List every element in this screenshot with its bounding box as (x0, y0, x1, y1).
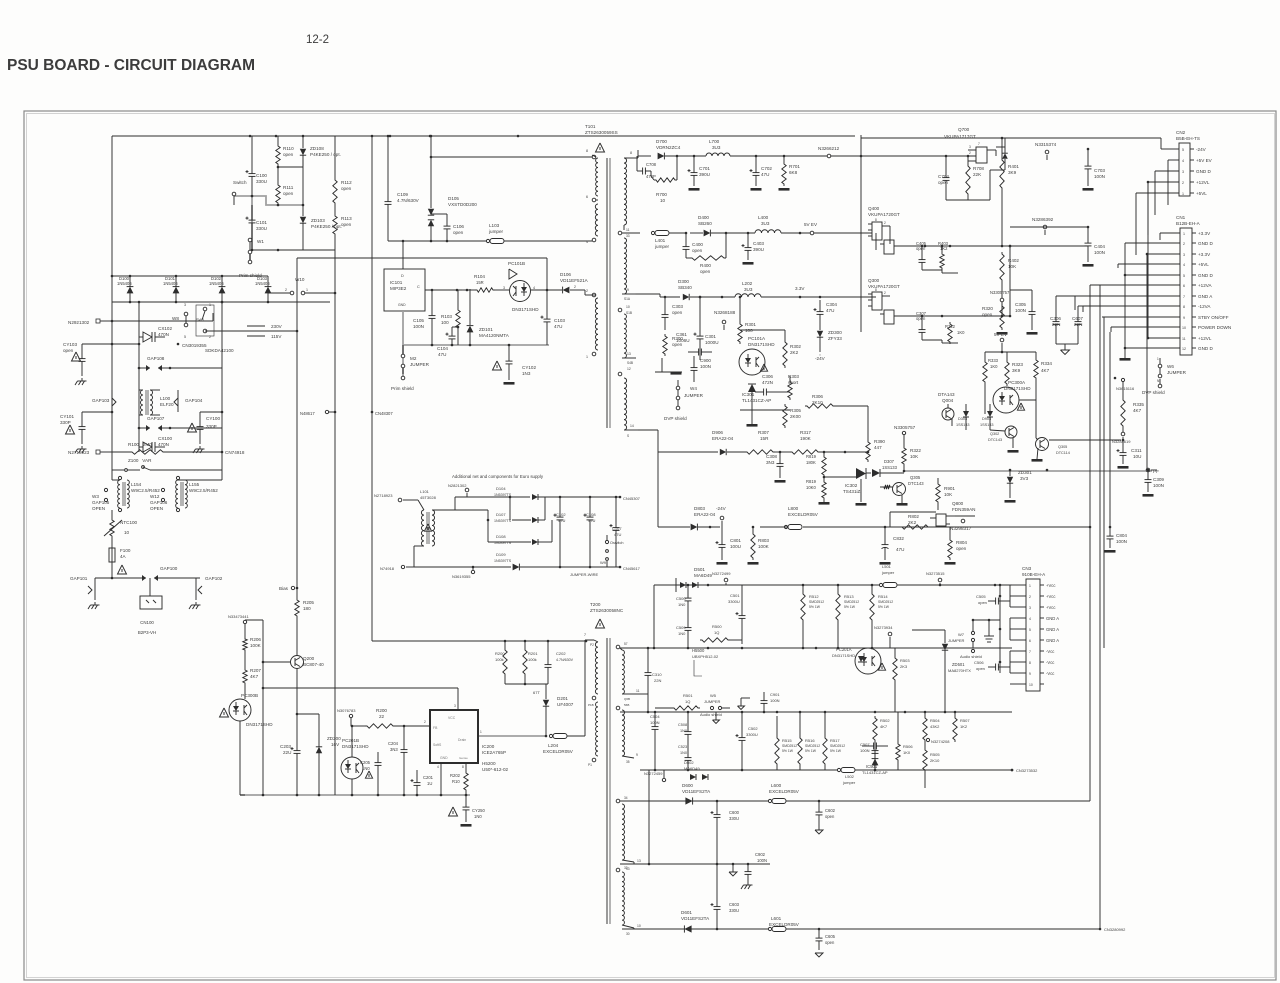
diode D803 ERA22-04 (691, 506, 720, 530)
svg-text:ICE2A765P: ICE2A765P (482, 750, 506, 755)
svg-text:P4KE250 / opt.: P4KE250 / opt. (310, 152, 341, 157)
svg-text:4K7: 4K7 (880, 724, 888, 729)
diode Q700 body (996, 147, 1008, 166)
svg-text:100U: 100U (730, 544, 741, 549)
jumper W4 (676, 380, 703, 400)
svg-text:4K7: 4K7 (1133, 408, 1142, 413)
diode D104 1N5397TS (494, 486, 620, 500)
svg-text:D106: D106 (560, 272, 571, 277)
svg-text:4: 4 (1183, 263, 1185, 267)
svg-text:3N3: 3N3 (766, 460, 775, 465)
svg-text:W8: W8 (172, 316, 179, 321)
shield tri PC201B (365, 771, 372, 778)
svg-text:2: 2 (1029, 595, 1031, 599)
svg-text:C101: C101 (256, 220, 267, 225)
svg-text:910B-EH-A: 910B-EH-A (1022, 572, 1046, 577)
svg-text:1: 1 (1157, 357, 1159, 361)
svg-text:22K: 22K (973, 172, 982, 177)
gap GAP102 (196, 576, 223, 600)
resistor R301 100 (738, 296, 757, 344)
svg-text:+12VA: +12VA (1198, 283, 1213, 288)
svg-text:R708: R708 (973, 166, 984, 171)
resistor R400 open (686, 232, 727, 274)
resistor R700 10 (654, 156, 677, 203)
audio shield 2 (700, 712, 722, 724)
svg-text:47U: 47U (558, 518, 565, 523)
connector CN100 (138, 578, 162, 635)
resistor R303 short (788, 374, 800, 400)
svg-text:CN100: CN100 (140, 620, 154, 625)
svg-text:FDN359AN: FDN359AN (952, 507, 976, 512)
svg-text:R517: R517 (830, 738, 840, 743)
svg-text:N3284619: N3284619 (1112, 439, 1131, 444)
earth ground (75, 378, 87, 385)
svg-text:C361: C361 (676, 332, 687, 337)
svg-text:R504: R504 (930, 718, 940, 723)
terminal N3305757 (894, 425, 916, 435)
resistor R320 open (982, 304, 1008, 335)
svg-text:GND D: GND D (1198, 241, 1213, 246)
terminal N2821302 (448, 483, 469, 497)
capacitor C102 47U (554, 497, 567, 567)
svg-text:7: 7 (978, 142, 980, 146)
svg-text:Z100 VAR: Z100 VAR (128, 458, 152, 463)
capacitor C311 10U (1117, 439, 1143, 469)
svg-text:C605: C605 (825, 934, 836, 939)
svg-text:VKUPA1720GT: VKUPA1720GT (868, 212, 900, 217)
svg-text:C600: C600 (729, 810, 740, 815)
svg-text:3V3: 3V3 (1020, 476, 1029, 481)
diode D108 1N5397TS (455, 510, 552, 545)
transformer T200 sec tap 11 (622, 689, 648, 701)
svg-text:2: 2 (884, 221, 886, 225)
svg-text:open: open (283, 152, 294, 157)
capacitor C501 3300U (728, 585, 746, 644)
transformer T101 secondary tap 12 (618, 372, 622, 376)
svg-text:open: open (700, 269, 711, 274)
svg-text:C506: C506 (974, 660, 984, 665)
svg-text:1000U: 1000U (705, 340, 719, 345)
svg-text:R307: R307 (758, 430, 769, 435)
wire rail 770 (640, 769, 1013, 772)
svg-text:Q305: Q305 (1058, 445, 1067, 449)
resistor R901 10K (936, 478, 956, 510)
svg-text:1Q: 1Q (714, 630, 719, 635)
resistor R701 6K8 (779, 156, 801, 191)
svg-text:ZD501: ZD501 (952, 662, 965, 667)
resistor R803 100K (748, 526, 770, 565)
svg-text:1K2: 1K2 (960, 724, 968, 729)
svg-text:N3274208: N3274208 (931, 739, 950, 744)
wire 5VEV right (1010, 226, 1089, 246)
wire euro top (432, 496, 530, 510)
svg-text:SMD2512: SMD2512 (809, 600, 824, 604)
svg-text:5% 1W: 5% 1W (782, 749, 794, 753)
wire CN2 feeds (1136, 160, 1168, 255)
svg-text:R111: R111 (283, 185, 294, 190)
svg-text:R113: R113 (341, 216, 352, 221)
svg-text:R819: R819 (806, 479, 817, 484)
svg-text:EXCELDR05V: EXCELDR05V (788, 512, 819, 517)
svg-text:MIP3E2: MIP3E2 (390, 286, 407, 291)
resistor R507 1K2 (953, 711, 971, 742)
svg-text:R516: R516 (805, 738, 815, 743)
gap GAP104 (174, 390, 203, 412)
svg-text:4: 4 (1182, 159, 1184, 163)
svg-text:C311: C311 (1131, 448, 1142, 453)
bridge diode D101 1N5406 (163, 276, 179, 302)
svg-text:5: 5 (1182, 148, 1184, 152)
svg-text:4: 4 (437, 765, 439, 769)
svg-text:5% 1W: 5% 1W (878, 605, 890, 609)
svg-text:OPEN: OPEN (150, 506, 163, 511)
svg-text:DTC114: DTC114 (1056, 451, 1070, 455)
svg-text:jumper: jumper (842, 780, 856, 785)
svg-text:R512: R512 (809, 594, 819, 599)
wire left rail (111, 136, 113, 452)
svg-text:Q302: Q302 (990, 432, 999, 436)
wire rail 932 (622, 928, 860, 931)
svg-text:47U: 47U (896, 547, 904, 552)
svg-text:open: open (341, 222, 352, 227)
CN1 pin 1 (1160, 231, 1211, 236)
svg-text:open: open (956, 546, 967, 551)
wire bus bottom right (860, 770, 1126, 932)
svg-text:-12VA: -12VA (1198, 304, 1211, 309)
resistor R333 1K0 (983, 352, 1002, 414)
capacitor C307 open (916, 311, 927, 340)
svg-text:R103: R103 (441, 314, 452, 319)
capacitor C508 open (976, 594, 1010, 607)
svg-text:P1B: P1B (588, 703, 594, 707)
svg-text:C204: C204 (388, 741, 399, 746)
svg-text:R701: R701 (789, 164, 800, 169)
earth ground (88, 602, 100, 609)
terminal N2921302 (68, 319, 112, 325)
svg-text:1: 1 (209, 303, 211, 307)
resistor R201 100k (523, 640, 539, 686)
gnd squiggle (738, 698, 751, 710)
svg-text:N2718923: N2718923 (68, 450, 90, 455)
svg-text:C702: C702 (761, 166, 772, 171)
svg-text:67T: 67T (533, 690, 540, 695)
svg-text:T101: T101 (585, 124, 596, 129)
svg-text:SMD2512: SMD2512 (782, 744, 797, 748)
svg-text:W7: W7 (958, 632, 965, 637)
svg-text:R400: R400 (700, 263, 711, 268)
capacitor C301 1000U (694, 296, 719, 360)
capacitor C105 100N (413, 289, 436, 345)
resistor R515 SMD2512 (775, 716, 797, 770)
wire bus x1100 (1099, 285, 1101, 770)
svg-text:3K9: 3K9 (1008, 170, 1017, 175)
bridge diode D102 1N5406 (209, 276, 225, 302)
transformer T101 primary winding upper (586, 149, 598, 244)
svg-text:7: 7 (584, 633, 586, 637)
svg-text:L154: L154 (131, 482, 142, 487)
resistor R708 22K (946, 156, 984, 200)
svg-text:N2718923: N2718923 (374, 493, 393, 498)
svg-text:10K: 10K (910, 454, 919, 459)
svg-text:10: 10 (1029, 683, 1033, 687)
svg-text:1N5397TS: 1N5397TS (494, 559, 512, 563)
capacitor C104 47U (437, 326, 459, 357)
capacitor C361 1006U (676, 332, 712, 356)
transformer T101 secondary tap 10 (618, 305, 632, 315)
capacitor C101 (246, 205, 268, 250)
svg-text:W10: W10 (295, 277, 305, 282)
svg-text:C308: C308 (766, 454, 777, 459)
resistor R502 4K7 (873, 716, 891, 742)
svg-text:3U3: 3U3 (761, 221, 770, 226)
ic IC302 TS431iZ (824, 468, 867, 506)
svg-text:D307: D307 (884, 459, 895, 464)
label H5200 (482, 761, 508, 772)
svg-text:open: open (976, 666, 985, 671)
CN2 pin 1 +5VL (1136, 191, 1207, 196)
svg-text:L601: L601 (771, 916, 782, 921)
svg-text:472N: 472N (762, 380, 773, 385)
resistor R516 SMD2512 (798, 711, 820, 770)
svg-text:1: 1 (306, 288, 308, 292)
page number 12-2 (306, 34, 329, 46)
transformer T200 sec tap 13 (622, 859, 641, 871)
svg-text:R901: R901 (944, 486, 955, 491)
optocoupler PC300B (229, 685, 273, 795)
svg-text:L155: L155 (189, 482, 200, 487)
svg-text:5% 1W: 5% 1W (830, 749, 842, 753)
gap W12 GAP106 (150, 488, 168, 511)
terminal prim shield (239, 254, 262, 278)
svg-text:R514: R514 (878, 594, 888, 599)
svg-text:N2821302: N2821302 (448, 483, 467, 488)
CN1 pin 11 (1147, 336, 1212, 341)
resistor R506 1K0 (896, 712, 914, 770)
CN1 pin 10 (1111, 325, 1231, 330)
capacitor CY100 330P (188, 411, 224, 444)
capacitor C108 47U (584, 497, 597, 567)
svg-text:L101: L101 (420, 489, 430, 494)
transformer T200 sec pin bottom (622, 924, 641, 936)
svg-text:330U: 330U (256, 179, 267, 184)
label 3.3V (795, 286, 805, 297)
labels 230V 115V (247, 324, 283, 339)
svg-text:R112: R112 (341, 180, 352, 185)
capacitor C504 100N (650, 712, 660, 770)
svg-text:N3305757: N3305757 (894, 425, 916, 430)
svg-text:N48617: N48617 (300, 411, 315, 416)
svg-text:DVP shield: DVP shield (1142, 390, 1165, 395)
svg-text:10: 10 (124, 530, 130, 535)
svg-text:R402: R402 (1008, 258, 1019, 263)
svg-text:F100: F100 (120, 548, 131, 553)
svg-text:open: open (978, 600, 987, 605)
CN1 pin 9 (1102, 315, 1229, 320)
svg-text:CN48307: CN48307 (375, 411, 393, 416)
svg-text:+Vcc: +Vcc (1046, 583, 1055, 588)
mosfet Q700 VKUPA1717GT (944, 127, 996, 163)
CN2 pin 4 +5V EV (1168, 158, 1213, 163)
svg-text:Isense: Isense (459, 756, 468, 760)
svg-text:L502: L502 (845, 774, 855, 779)
wire Q700 node (945, 155, 970, 158)
svg-text:R513: R513 (844, 594, 854, 599)
capacitor C801 100U (716, 527, 742, 565)
svg-text:22N: 22N (654, 678, 661, 683)
svg-text:3: 3 (503, 286, 505, 290)
svg-text:VXSTD0D200: VXSTD0D200 (448, 202, 477, 207)
svg-text:470N: 470N (158, 442, 169, 447)
svg-text:C106: C106 (453, 224, 464, 229)
CN1 pin 6 (1090, 283, 1213, 288)
svg-text:9: 9 (1183, 316, 1185, 320)
transistor Q305 DTC143 (880, 475, 924, 506)
svg-text:VD11EF521A: VD11EF521A (560, 278, 589, 283)
resistor R113 (333, 205, 352, 250)
svg-text:2: 2 (969, 151, 971, 155)
svg-text:2: 2 (1183, 242, 1185, 246)
wire bus x1090 (1089, 527, 1091, 770)
svg-text:+5VL: +5VL (1196, 191, 1207, 196)
wire 3.3V rail start (636, 294, 680, 297)
svg-text:R205: R205 (303, 600, 314, 605)
svg-text:ZTS2630058NC: ZTS2630058NC (590, 608, 624, 613)
svg-text:CN3019355: CN3019355 (182, 343, 207, 348)
svg-text:8: 8 (1183, 305, 1185, 309)
svg-text:4.7N/630V: 4.7N/630V (556, 658, 574, 662)
svg-text:W9C2.5/R452: W9C2.5/R452 (131, 488, 160, 493)
ground IC301 (747, 410, 758, 427)
capacitor C509 1N0 (676, 614, 692, 649)
svg-text:1: 1 (1182, 192, 1184, 196)
svg-text:Prim shield: Prim shield (391, 386, 414, 391)
svg-text:L204: L204 (548, 743, 559, 748)
svg-text:JUMPER: JUMPER (1167, 370, 1187, 375)
svg-text:100k: 100k (495, 657, 504, 662)
svg-text:56B: 56B (624, 703, 629, 707)
svg-text:SDKDA42100: SDKDA42100 (205, 348, 234, 353)
svg-text:open: open (453, 230, 464, 235)
wire pin14 down (638, 430, 658, 527)
bridge diode D103 1N5406 (255, 276, 271, 302)
diode D201 UF4007 (505, 684, 574, 736)
wire rail 712 (620, 711, 1012, 714)
svg-text:330U: 330U (729, 908, 739, 913)
svg-text:CN3: CN3 (1022, 566, 1032, 571)
wire CN1 verticals (1075, 182, 1160, 648)
svg-text:D502: D502 (684, 760, 694, 765)
svg-text:1U: 1U (427, 781, 432, 786)
svg-text:+5VL: +5VL (1198, 262, 1209, 267)
wire rail 805 (620, 800, 860, 803)
svg-text:N3272459: N3272459 (644, 771, 663, 776)
svg-text:100N: 100N (860, 748, 870, 753)
svg-text:CX102: CX102 (158, 326, 172, 331)
svg-text:7: 7 (1029, 650, 1031, 654)
svg-text:CY100: CY100 (206, 416, 220, 421)
wire grey net switch (234, 196, 303, 263)
wire control verticals (245, 620, 264, 795)
wire snubber vertical (430, 136, 592, 208)
svg-text:N3315374: N3315374 (1035, 142, 1057, 147)
diode D501 MA6D49 (655, 567, 720, 592)
svg-text:5% 1W: 5% 1W (844, 605, 856, 609)
svg-text:GAP100: GAP100 (160, 566, 178, 571)
svg-text:C832: C832 (893, 536, 904, 541)
svg-text:L202: L202 (742, 281, 753, 286)
svg-text:2: 2 (424, 720, 426, 724)
resistor R200 22 (351, 708, 430, 728)
terminal PF (1146, 468, 1159, 474)
svg-text:5: 5 (184, 335, 186, 339)
svg-text:H5200: H5200 (482, 761, 496, 766)
svg-text:330U: 330U (256, 226, 267, 231)
CN1 pin 5 (1124, 273, 1214, 278)
svg-text:4: 4 (533, 286, 535, 290)
label H5500 (692, 648, 719, 676)
svg-text:Bias: Bias (279, 586, 289, 591)
gap W3 GAP105 (92, 488, 110, 511)
svg-text:L100: L100 (160, 396, 171, 401)
svg-text:PC201B: PC201B (342, 738, 359, 743)
svg-text:N3615116: N3615116 (1116, 386, 1135, 391)
wire bridge top (111, 275, 268, 278)
jumper W7 (948, 619, 975, 648)
svg-text:3U3: 3U3 (712, 145, 721, 150)
terminal CN45307 (619, 496, 641, 501)
svg-text:45T3028: 45T3028 (420, 495, 437, 500)
svg-text:C309: C309 (1153, 477, 1164, 482)
svg-text:1N5397TS: 1N5397TS (494, 519, 512, 523)
svg-text:N3273515: N3273515 (926, 571, 945, 576)
resistor R323 3K9 (1001, 351, 1036, 386)
svg-text:Q305: Q305 (910, 475, 921, 480)
transistor Q200 BC807-40 (263, 656, 324, 715)
capacitor C507 100N (860, 742, 888, 762)
transformer L101 45T3028 (414, 489, 437, 546)
wire feedback rail (658, 451, 700, 453)
jumper M2 (401, 345, 429, 374)
svg-text:4: 4 (1029, 617, 1031, 621)
svg-text:47U: 47U (438, 352, 446, 357)
svg-text:TL1431CZ-AP: TL1431CZ-AP (742, 398, 771, 403)
svg-text:C603: C603 (729, 902, 740, 907)
zener ZD300 ZFY33 (815, 326, 842, 361)
transformer T200 sec winding 4 (616, 866, 628, 925)
svg-text:N2921302: N2921302 (68, 320, 90, 325)
wire (277, 166, 303, 169)
svg-text:W5: W5 (710, 693, 717, 698)
svg-text:1N5406: 1N5406 (209, 281, 224, 286)
svg-text:4K7: 4K7 (1041, 368, 1050, 373)
svg-text:180K: 180K (806, 460, 816, 465)
mosfet Q800 FDN359AN (930, 501, 976, 526)
resistor R402 10K (1000, 252, 1020, 296)
svg-text:100K: 100K (250, 643, 262, 648)
svg-text:1N5406: 1N5406 (255, 281, 270, 286)
capacitor C308 3N3 (766, 452, 786, 483)
svg-text:10: 10 (1182, 326, 1186, 330)
svg-text:Audio shield: Audio shield (960, 654, 982, 659)
resistor R802 2K2 (890, 512, 936, 529)
svg-text:-Vcc: -Vcc (1046, 649, 1054, 654)
svg-text:R202: R202 (450, 773, 461, 778)
svg-text:C708: C708 (646, 162, 657, 167)
svg-text:+Vcc: +Vcc (1046, 594, 1055, 599)
svg-text:1: 1 (1183, 232, 1185, 236)
svg-text:C701: C701 (699, 166, 710, 171)
svg-text:P2: P2 (590, 643, 594, 647)
